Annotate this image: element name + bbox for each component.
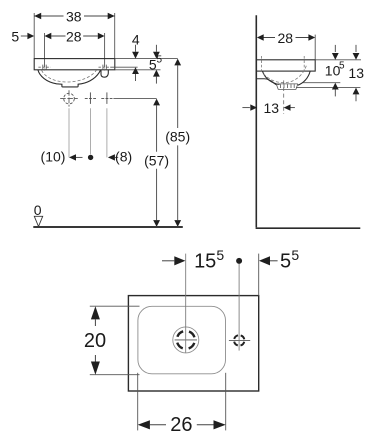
stub line from drain down [68,108,70,157]
dimension 5.5 down arrow [155,45,157,52]
extension line left hole for dim 28 [44,33,46,67]
ground line [33,226,183,228]
right fixing hole [99,61,111,70]
dimension dot at middle hole [88,155,93,160]
svg-text:28: 28 [278,30,294,46]
svg-text:15: 15 [194,251,216,273]
dimension 28 line [51,35,98,37]
dimension (57) down arrow [153,220,160,227]
svg-text:28: 28 [66,28,82,44]
side dimension 28 right arrow [308,34,315,40]
rim dashed line rear [261,56,263,71]
dimension 38 line [34,15,115,17]
side dim 13 bottom leader [242,107,250,109]
dimension 38 left arrow [34,13,41,19]
dimension (10) arrow [69,154,76,160]
plan dim 20 down arrow [94,355,96,362]
rim top extension line right [115,58,178,60]
tap hole mark right front [101,92,112,104]
datum triangle [34,216,42,226]
plan right edge extension up [258,254,260,296]
dimension 5 arrow [27,33,34,39]
dimension 28 right arrow [98,33,105,39]
dimension (57) line [156,105,158,220]
reference line 10.5 [303,82,340,84]
dimension 5 leader line [21,35,28,37]
bowl outline side left [262,71,279,84]
hole level extension line right [110,66,137,68]
drain centerline side [283,80,285,114]
drain vertical centerline plan [185,254,187,353]
plan dim 26 right arrow [197,424,214,426]
plan outer rectangle [128,296,258,391]
side dimension 28 line [264,37,309,39]
svg-text:38: 38 [66,8,82,24]
wall line [255,15,257,227]
dimension 4 up arrow [132,67,139,74]
drain cross front [60,98,78,100]
svg-text:5: 5 [291,247,299,263]
tap hole dashed circle plan [234,335,244,345]
floor line side [256,227,361,229]
plan dim 20 extension bottom [90,374,140,376]
bowl inner dashed curve side [264,66,307,83]
plan dim 26 left arrow [138,420,150,429]
trap side [276,84,298,90]
washbasin rim front [34,59,115,70]
mounting block side [256,79,277,85]
extension line right of dim 38 [114,13,116,58]
side dim 28 extension line [314,35,316,60]
svg-text:(8): (8) [115,149,132,165]
svg-text:(85): (85) [165,129,190,145]
svg-text:5: 5 [339,61,345,72]
bowl right tab front [101,70,108,77]
svg-text:26: 26 [170,414,192,436]
rim dashed line front [303,56,305,71]
dimension (8) line [115,156,118,158]
svg-text:5: 5 [280,251,291,273]
tap hole cross plan [229,339,250,341]
svg-text:(10): (10) [41,148,66,164]
plan dim 20 up arrow [91,306,100,319]
drain cross horizontal plan [175,339,197,341]
dimension 5.5 up arrow [153,70,160,77]
drain symbol front (dashed circle) [64,93,75,104]
dimension 4 down arrow [135,45,137,52]
dimension (10) line [76,156,83,158]
reference line 13 [296,87,360,89]
bowl outline front [38,70,101,87]
dimension (8) arrow [108,154,115,160]
side dim 13 bottom right arrow [284,104,291,110]
tap hole mark middle front [85,92,96,104]
drain outer circle plan [173,327,199,353]
plan dim dot at tap [236,258,242,264]
dimension 28 left arrow [45,33,52,39]
dimension (57) up arrow [153,99,160,106]
drain dashed ring plan [177,331,195,349]
plan dim 15.5 arrow [174,256,185,265]
plan dim 20 extension top [90,305,140,307]
side dim 13 bottom left arrow [250,104,257,110]
svg-text:0: 0 [34,202,42,218]
washbasin rim side [256,60,315,71]
svg-text:5: 5 [216,247,224,263]
rim top extension right side [315,59,361,61]
plan dim 15.5 leader [162,260,174,262]
plan dim 5.5 arrow [259,256,270,265]
svg-text:20: 20 [84,330,106,352]
dim 13 down arrow [355,45,357,52]
left fixing hole [38,61,50,70]
stub line from middle hole down [90,108,92,154]
bowl outline side right [298,71,310,85]
dimension (85) down arrow [174,220,181,227]
dim 10.5 down arrow [334,45,336,52]
svg-text:13: 13 [264,100,280,116]
extension line left of dim 38 [33,13,35,58]
rim bottom extension line right [115,69,161,71]
svg-text:5: 5 [11,28,19,44]
bowl inner dashed curve front [42,70,97,82]
dim 13 up arrow [353,88,360,95]
svg-text:13: 13 [348,65,364,81]
hole axis line to (57) [113,98,156,100]
extension line right hole for dim 28 [104,33,106,67]
dimension (85) line [177,65,179,220]
dim 10.5 up arrow [332,83,339,90]
dimension 38 right arrow [108,13,115,19]
dimension (85) up arrow [174,59,181,66]
plan dim 26 extension left [137,373,139,431]
side dimension 28 left arrow [257,34,264,40]
stub line from right hole down [106,108,108,157]
svg-text:(57): (57) [144,152,169,168]
plan bowl rounded rectangle [138,306,226,374]
plan dim 26 extension right [225,373,227,431]
